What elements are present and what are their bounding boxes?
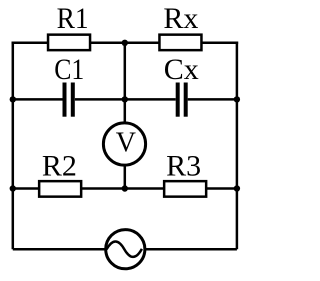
capacitor Cx plates bbox=[176, 83, 188, 117]
resistor R2 bbox=[39, 181, 81, 197]
voltmeter V1 body bbox=[103, 123, 145, 165]
svg-text:Rx: Rx bbox=[163, 2, 198, 35]
resistor Rx bbox=[159, 35, 201, 51]
wire: capacitor row left segment (left rail to C1) bbox=[13, 98, 63, 101]
capacitor C1 plates bbox=[63, 83, 75, 117]
wire: top rail bbox=[12, 42, 239, 45]
wire: right rail bbox=[236, 42, 239, 250]
svg-text:C1: C1 bbox=[54, 53, 84, 86]
circuit schematic: capacitance bridge bbox=[0, 0, 250, 281]
wire: center vertical (top node through V meter row) bbox=[124, 43, 127, 189]
resistor R1 bbox=[48, 35, 90, 51]
svg-text:R1: R1 bbox=[57, 2, 89, 35]
node: center / R2 row junction bbox=[122, 185, 128, 191]
AC source body bbox=[106, 230, 145, 269]
node: top center junction bbox=[122, 40, 128, 46]
node: left rail / capacitor row junction bbox=[10, 96, 16, 102]
node: left rail / R2 row junction bbox=[10, 185, 16, 191]
node: center / capacitor row junction bbox=[122, 96, 128, 102]
node: right rail / capacitor row junction bbox=[234, 96, 240, 102]
svg-text:Cx: Cx bbox=[164, 53, 199, 86]
resistor R3 bbox=[164, 181, 206, 197]
wire: bottom rail bbox=[13, 248, 237, 251]
svg-text:R3: R3 bbox=[166, 150, 201, 183]
wire: capacitor row middle segment (C1 to Cx) bbox=[75, 98, 176, 101]
wire: R2/R3 row bbox=[13, 187, 237, 190]
node: right rail / R3 row junction bbox=[234, 185, 240, 191]
AC source sine wave bbox=[107, 241, 142, 256]
wire: capacitor row right segment (Cx to right rail) bbox=[188, 98, 237, 101]
svg-text:R2: R2 bbox=[42, 150, 77, 183]
svg-text:V: V bbox=[116, 127, 136, 158]
wire: left rail bbox=[12, 42, 15, 250]
